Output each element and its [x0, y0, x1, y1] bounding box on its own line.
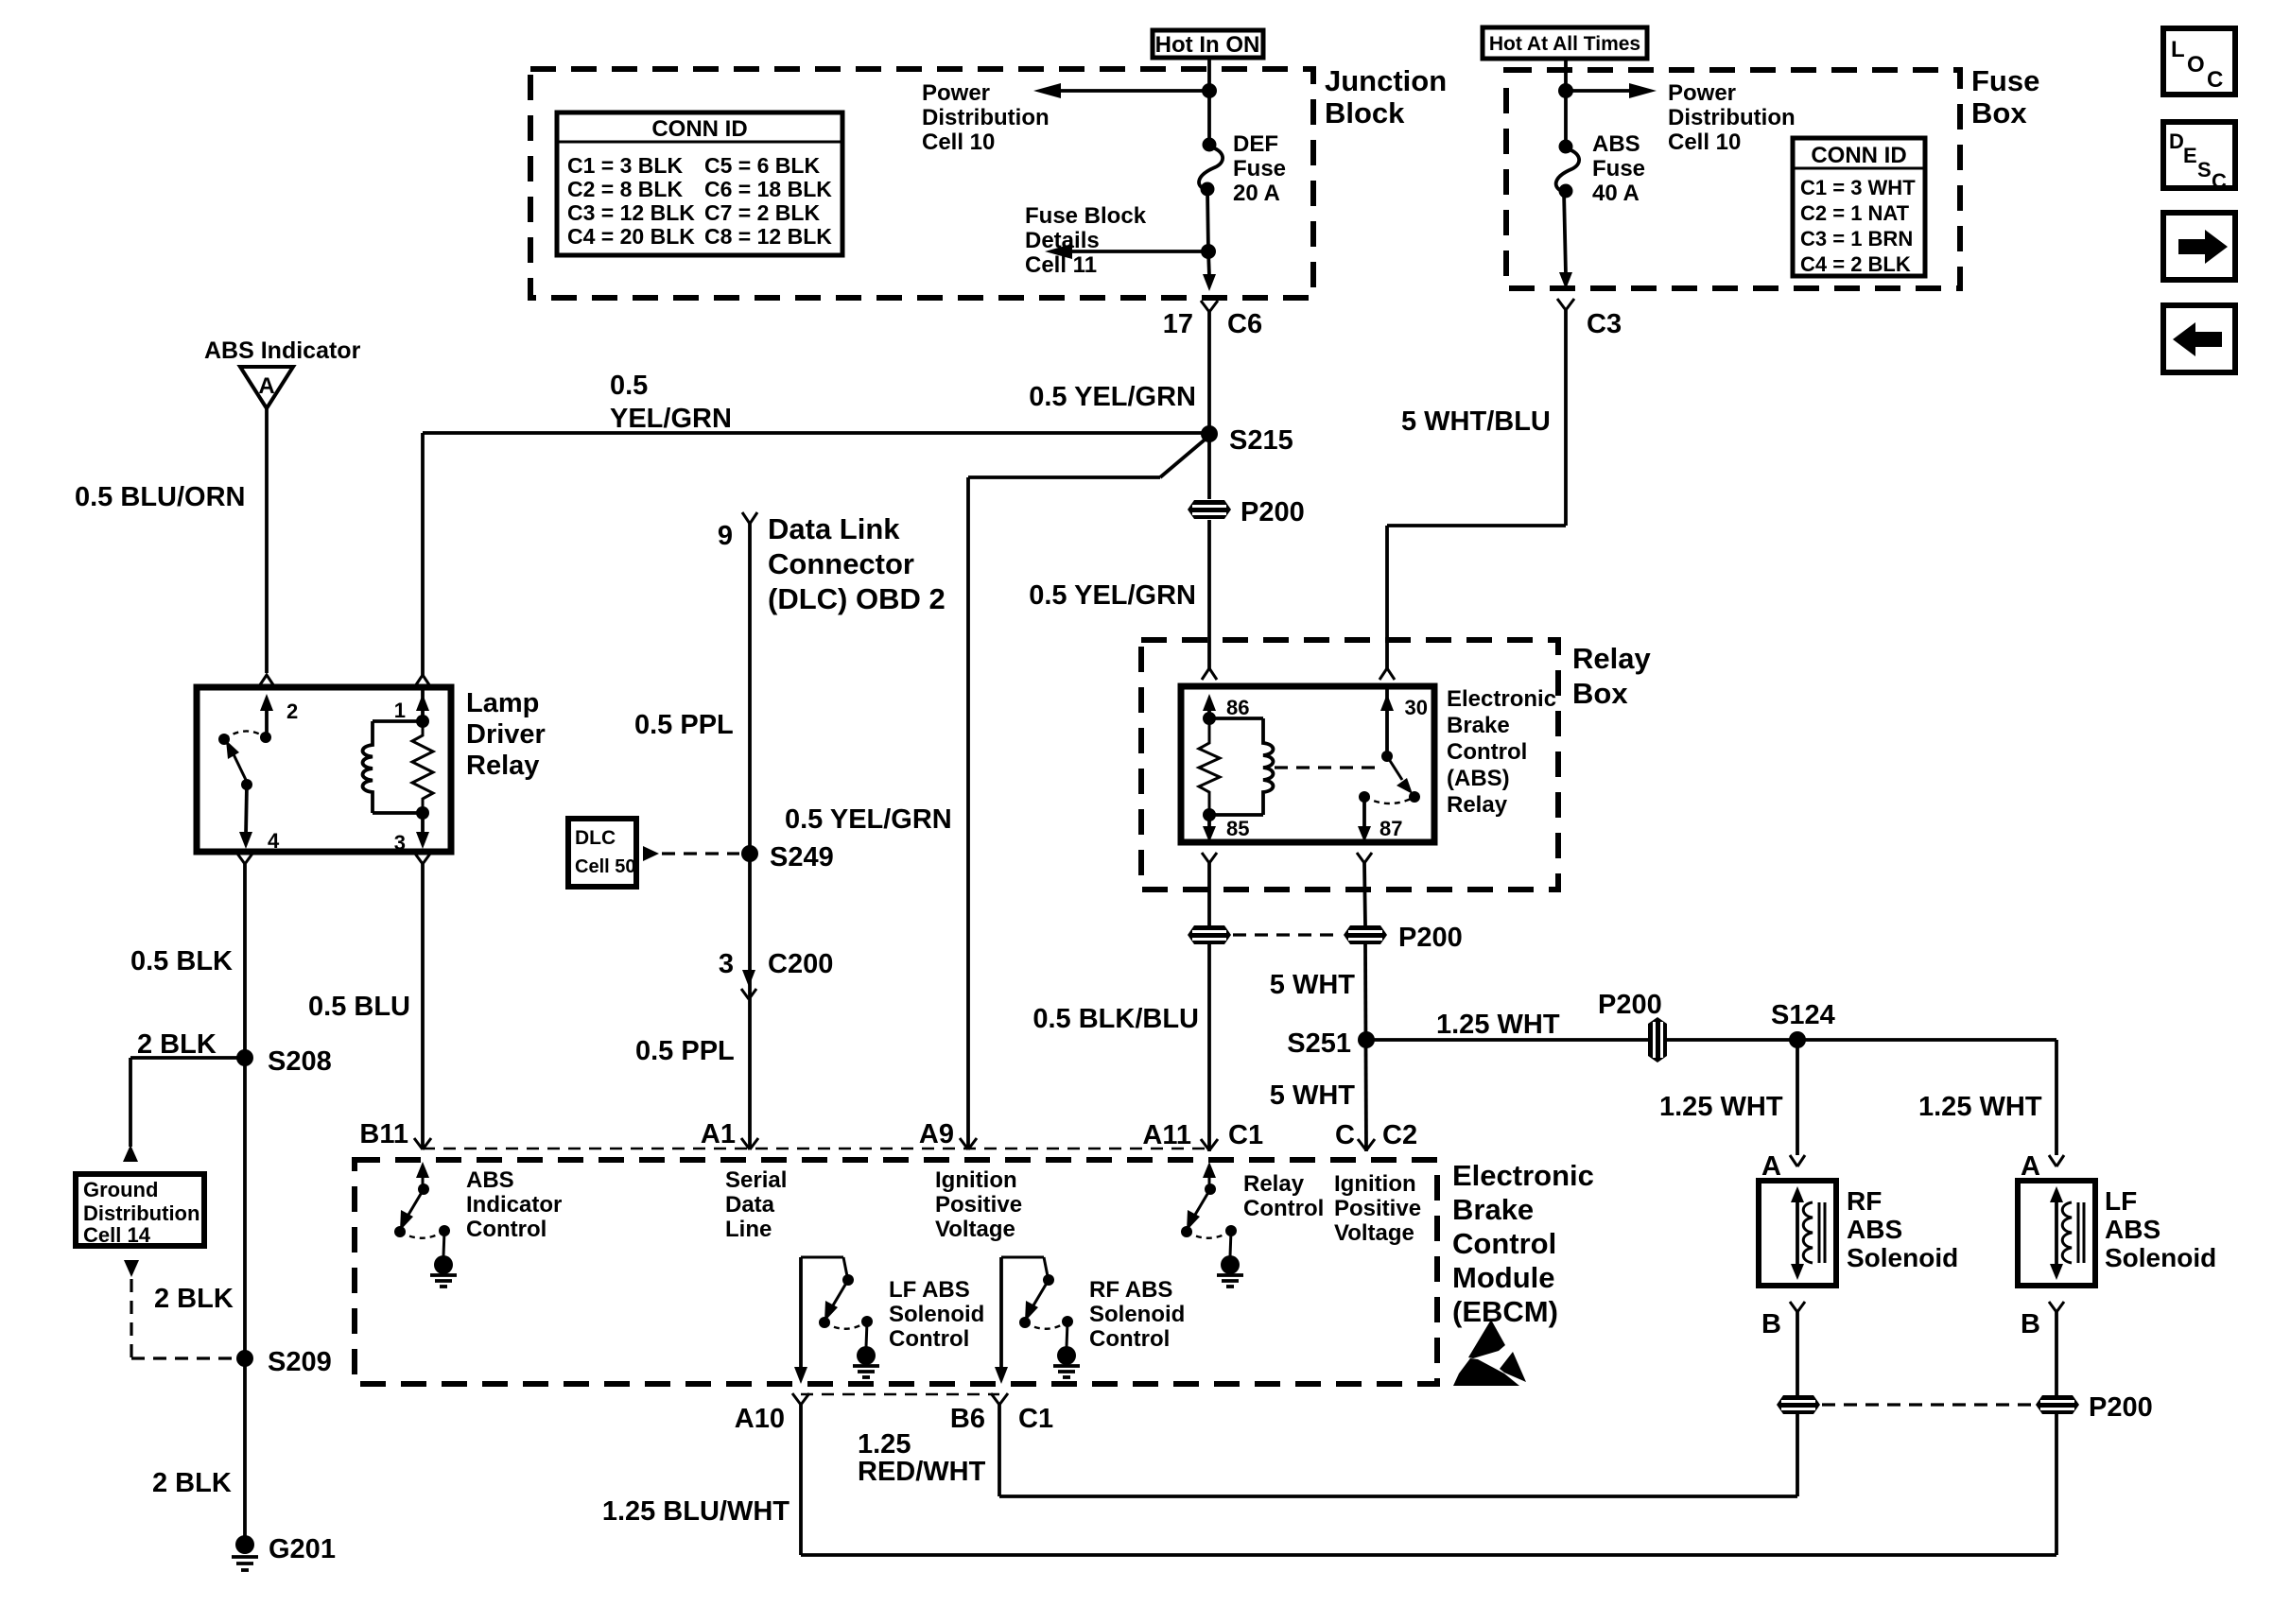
svg-text:B: B	[1761, 1309, 1781, 1339]
lamp relay coil	[363, 721, 424, 813]
connector chevron A1	[741, 1138, 758, 1149]
svg-text:Driver: Driver	[466, 719, 546, 750]
connector C6 chevron	[1201, 301, 1218, 432]
svg-text:C2 = 8 BLK: C2 = 8 BLK	[567, 177, 683, 201]
svg-text:Control: Control	[1243, 1196, 1324, 1221]
svg-text:5 WHT: 5 WHT	[1270, 1080, 1356, 1111]
label Fuse Block Details Cell 11	[1025, 203, 1147, 278]
wire S251 to S124	[1366, 1038, 1648, 1042]
svg-text:LF: LF	[2105, 1186, 2137, 1216]
svg-text:Control: Control	[1447, 739, 1527, 765]
svg-text:C6: C6	[1227, 309, 1262, 339]
dashed link coil to switch	[1275, 766, 1376, 769]
label ABS Indicator Control	[466, 1167, 562, 1242]
wire fuse block details arrow left	[1045, 244, 1216, 259]
node S208	[236, 1046, 332, 1077]
svg-text:Control: Control	[1089, 1326, 1170, 1352]
svg-text:5 WHT/BLU: 5 WHT/BLU	[1401, 406, 1551, 437]
svg-text:B: B	[2021, 1309, 2040, 1339]
svg-text:Block: Block	[1325, 96, 1405, 130]
label Relay Control	[1243, 1171, 1324, 1221]
svg-text:C200: C200	[768, 949, 833, 979]
svg-text:Connector: Connector	[768, 547, 914, 580]
pin 2 arrow inside	[260, 694, 273, 736]
svg-text:Cell 50: Cell 50	[575, 856, 635, 877]
pin 1 line with arrow	[416, 687, 429, 721]
DLC cell 50 box	[568, 819, 636, 887]
thin dashed connector line top	[423, 1148, 1209, 1150]
svg-text:Data Link: Data Link	[768, 512, 900, 545]
svg-text:B11: B11	[359, 1119, 408, 1149]
svg-text:Control: Control	[889, 1326, 969, 1352]
svg-text:C2 = 1 NAT: C2 = 1 NAT	[1800, 201, 1910, 225]
wire S208 to ground distribution	[123, 1058, 245, 1162]
label Electronic Brake Control (ABS) Relay	[1447, 686, 1556, 818]
connector chevron B6-C1	[991, 1393, 1008, 1496]
relay resistor	[1199, 712, 1220, 821]
wire power distribution arrow left	[1033, 83, 1217, 98]
svg-text:C5 = 6 BLK: C5 = 6 BLK	[704, 153, 820, 178]
ABS indicator triangle A	[240, 367, 293, 408]
relay box dashed	[1141, 640, 1558, 890]
svg-text:DLC: DLC	[575, 827, 616, 849]
junction block dashed box	[530, 69, 1313, 298]
label Ignition Positive Voltage (A9)	[935, 1167, 1022, 1242]
ESD symbol	[1453, 1320, 1526, 1386]
svg-text:C1: C1	[1228, 1120, 1263, 1150]
svg-text:A10: A10	[735, 1404, 785, 1434]
wire hot-at-all-times down	[1564, 59, 1568, 146]
svg-text:ABS Indicator: ABS Indicator	[204, 337, 361, 364]
svg-text:Distribution: Distribution	[922, 105, 1050, 130]
dashed link P200 pair	[1233, 933, 1342, 936]
relay coil	[1209, 718, 1274, 815]
svg-text:Cell 10: Cell 10	[922, 130, 995, 155]
label Fuse Box	[1971, 64, 2039, 130]
arrow and dashed link to S249	[643, 846, 739, 861]
connector P200 grommet (LF B)	[2036, 1392, 2153, 1423]
connector chevron A11-C1	[1201, 1139, 1218, 1150]
wire horizontal yelgrn to S215	[423, 433, 1209, 675]
svg-text:Cell 10: Cell 10	[1668, 130, 1741, 155]
svg-text:ABS: ABS	[2105, 1215, 2160, 1244]
RF solenoid internals	[1791, 1186, 1825, 1280]
lamp relay resistor	[412, 715, 433, 820]
node S215	[1201, 425, 1293, 456]
connector P200 vertical grommet	[1648, 1017, 1667, 1063]
node S251	[1287, 1028, 1375, 1059]
svg-text:S209: S209	[268, 1347, 332, 1377]
svg-text:2 BLK: 2 BLK	[154, 1284, 234, 1314]
wire fuse down exit arrow	[1559, 191, 1572, 289]
RF ABS solenoid control switch	[995, 1257, 1080, 1384]
wire fuse to block exit	[1207, 189, 1208, 251]
svg-text:87: 87	[1379, 817, 1402, 840]
label 1.25 RED/WHT	[858, 1429, 986, 1487]
svg-text:ABS: ABS	[466, 1167, 514, 1193]
label Electronic Brake Control Module (EBCM)	[1452, 1159, 1594, 1328]
connector chevron A9	[960, 1138, 977, 1149]
connector chevron below pin3	[415, 854, 430, 1149]
svg-text:ABS: ABS	[1592, 131, 1640, 157]
connector C200 arrow+chevron	[741, 970, 756, 999]
svg-text:1.25 BLU/WHT: 1.25 BLU/WHT	[602, 1496, 789, 1527]
svg-text:Relay: Relay	[466, 751, 539, 781]
connector chevron pin1 top	[415, 675, 430, 686]
LF solenoid internals	[2050, 1186, 2084, 1280]
svg-text:1.25: 1.25	[858, 1429, 911, 1460]
Hot At All Times box	[1483, 27, 1647, 59]
svg-text:Serial: Serial	[725, 1167, 787, 1193]
ground distribution box	[76, 1174, 204, 1247]
svg-text:C3 = 1 BRN: C3 = 1 BRN	[1800, 227, 1913, 251]
svg-text:G201: G201	[269, 1534, 336, 1564]
svg-text:Fuse: Fuse	[1592, 156, 1645, 181]
svg-text:Fuse Block: Fuse Block	[1025, 203, 1147, 229]
wire 85 down to A11	[1207, 944, 1211, 1151]
svg-text:(EBCM): (EBCM)	[1452, 1295, 1558, 1328]
label Relay Box	[1572, 642, 1651, 710]
right arrow box	[2163, 213, 2235, 280]
svg-text:9: 9	[718, 521, 733, 551]
wire P200 to relay box	[1207, 520, 1211, 669]
svg-text:C4 = 2 BLK: C4 = 2 BLK	[1800, 252, 1911, 276]
svg-text:Solenoid: Solenoid	[1089, 1302, 1185, 1327]
svg-text:Electronic: Electronic	[1452, 1159, 1594, 1192]
connector P200 grommet (85 side)	[1188, 925, 1231, 944]
RF solenoid box	[1759, 1181, 1836, 1286]
svg-text:RED/WHT: RED/WHT	[858, 1457, 986, 1487]
svg-text:RF: RF	[1847, 1186, 1882, 1216]
svg-text:DEF: DEF	[1233, 131, 1278, 157]
svg-text:Distribution: Distribution	[83, 1201, 200, 1225]
svg-text:CONN ID: CONN ID	[1811, 143, 1906, 168]
svg-text:3: 3	[719, 949, 734, 979]
svg-text:A1: A1	[701, 1119, 736, 1149]
svg-text:0.5 BLK: 0.5 BLK	[130, 946, 233, 976]
fuse ABS	[1556, 140, 1579, 199]
svg-text:0.5 PPL: 0.5 PPL	[634, 710, 734, 740]
LOC box	[2163, 28, 2235, 95]
svg-text:Positive: Positive	[1334, 1196, 1421, 1221]
svg-text:Cell 11: Cell 11	[1025, 252, 1097, 278]
thin dashed connector line bottom	[801, 1393, 999, 1396]
svg-text:O: O	[2187, 52, 2205, 78]
svg-text:Voltage: Voltage	[935, 1217, 1015, 1242]
label Power Distribution Cell 10 (fuse box)	[1668, 80, 1796, 155]
left arrow box	[2163, 305, 2235, 372]
label Junction Block	[1325, 64, 1447, 130]
LF solenoid box	[2018, 1181, 2095, 1286]
wire S215 down to P200	[1207, 434, 1211, 499]
node S209	[236, 1347, 332, 1377]
svg-text:1: 1	[394, 699, 406, 722]
label LF ABS Solenoid Control	[889, 1277, 984, 1352]
label Power Distribution Cell 10	[922, 80, 1050, 155]
svg-text:S: S	[2197, 158, 2212, 181]
CONN ID table (fuse box)	[1793, 138, 1925, 276]
svg-text:30: 30	[1405, 696, 1428, 719]
svg-text:C1: C1	[1018, 1404, 1053, 1434]
svg-text:Junction: Junction	[1325, 64, 1447, 97]
svg-text:C4 = 20 BLK: C4 = 20 BLK	[567, 224, 695, 249]
LF ABS solenoid control switch	[794, 1257, 879, 1384]
svg-text:P200: P200	[2089, 1392, 2153, 1423]
svg-text:1.25 WHT: 1.25 WHT	[1918, 1092, 2042, 1122]
svg-text:Line: Line	[725, 1217, 772, 1242]
svg-text:C3 = 12 BLK: C3 = 12 BLK	[567, 200, 695, 225]
wire S215 diagonal to A9 drop	[968, 436, 1209, 1149]
pin 3 wire arrow down	[416, 813, 429, 849]
CONN ID table (junction block)	[557, 112, 842, 255]
svg-text:CONN ID: CONN ID	[651, 116, 747, 142]
svg-text:Positive: Positive	[935, 1192, 1022, 1218]
wire ABS indicator down	[265, 408, 269, 673]
pin 30 line arrow	[1380, 687, 1394, 756]
svg-text:Relay: Relay	[1572, 642, 1651, 675]
label Data Link Connector (DLC) OBD 2	[768, 512, 946, 615]
svg-text:A: A	[1761, 1151, 1781, 1182]
lamp driver relay box	[197, 687, 451, 852]
fuse DEF	[1199, 138, 1223, 197]
chevron above pin 30	[1379, 668, 1395, 680]
svg-text:C: C	[2212, 169, 2227, 193]
svg-text:(ABS): (ABS)	[1447, 766, 1510, 791]
wire RF B return	[999, 1414, 1797, 1496]
svg-text:C: C	[1335, 1120, 1355, 1150]
svg-text:C1 = 3 WHT: C1 = 3 WHT	[1800, 176, 1916, 199]
svg-text:5 WHT: 5 WHT	[1270, 970, 1356, 1000]
svg-text:Control: Control	[466, 1217, 547, 1242]
svg-text:L: L	[2171, 37, 2185, 62]
svg-text:A9: A9	[919, 1119, 954, 1149]
chevron B LF	[2049, 1302, 2064, 1395]
relay control switch	[1181, 1162, 1243, 1287]
wire P200 to S124	[1667, 1038, 2056, 1042]
svg-text:0.5 BLU/ORN: 0.5 BLU/ORN	[75, 482, 245, 512]
wire ground distribution to S209 dashed	[124, 1260, 236, 1358]
svg-text:20 A: 20 A	[1233, 181, 1280, 206]
svg-text:17: 17	[1163, 309, 1193, 339]
svg-text:Relay: Relay	[1447, 792, 1508, 818]
svg-text:Distribution: Distribution	[1668, 105, 1796, 130]
connector P200 grommet (87 side)	[1344, 923, 1463, 953]
svg-text:Data: Data	[725, 1192, 775, 1218]
svg-text:3: 3	[394, 831, 406, 855]
wire corner down LF	[2055, 1040, 2058, 1155]
svg-text:Fuse: Fuse	[1233, 156, 1286, 181]
chevron below pin 85	[1202, 853, 1217, 925]
lamp relay switch	[218, 731, 271, 790]
svg-text:Lamp: Lamp	[466, 688, 539, 718]
svg-text:C7 = 2 BLK: C7 = 2 BLK	[704, 200, 820, 225]
ABS relay solid box	[1181, 686, 1434, 842]
svg-text:B6: B6	[950, 1404, 985, 1434]
svg-text:P200: P200	[1398, 923, 1463, 953]
svg-text:C1 = 3 BLK: C1 = 3 BLK	[567, 153, 683, 178]
svg-text:C3: C3	[1587, 309, 1622, 339]
dashed link solenoid P200 pair	[1822, 1403, 2034, 1406]
label Lamp Driver Relay	[466, 688, 546, 781]
svg-text:Solenoid: Solenoid	[1847, 1243, 1958, 1272]
svg-text:Indicator: Indicator	[466, 1192, 562, 1218]
svg-text:C: C	[2207, 67, 2223, 93]
DESC box	[2163, 122, 2235, 193]
svg-text:0.5 PPL: 0.5 PPL	[635, 1036, 735, 1066]
connector chevron B11	[414, 1138, 431, 1149]
wire hot-in-on down	[1207, 58, 1211, 144]
pin 86 arrow	[1203, 694, 1216, 718]
chevron above pin 86	[1202, 668, 1217, 680]
connector P200 grommet (main)	[1188, 497, 1305, 527]
label Ignition Positive Voltage (C2)	[1334, 1171, 1421, 1246]
svg-text:Relay: Relay	[1243, 1171, 1305, 1197]
svg-text:S208: S208	[268, 1046, 332, 1077]
node S249	[741, 842, 834, 872]
chevron B RF	[1790, 1302, 1805, 1395]
EBCM dashed box	[355, 1160, 1437, 1384]
svg-text:A11: A11	[1142, 1120, 1191, 1150]
svg-text:2 BLK: 2 BLK	[137, 1029, 217, 1060]
connector chevron below pin4	[237, 854, 252, 1536]
svg-text:S124: S124	[1771, 1000, 1835, 1030]
svg-text:40 A: 40 A	[1592, 181, 1640, 206]
svg-text:LF ABS: LF ABS	[889, 1277, 970, 1303]
svg-text:Details: Details	[1025, 228, 1100, 253]
svg-text:RF ABS: RF ABS	[1089, 1277, 1172, 1303]
ABS indicator control switch	[394, 1162, 457, 1287]
label Serial Data Line	[725, 1167, 787, 1242]
ground G201	[232, 1534, 336, 1570]
svg-text:Brake: Brake	[1452, 1193, 1534, 1226]
svg-text:Box: Box	[1572, 677, 1628, 710]
svg-text:C8 = 12 BLK: C8 = 12 BLK	[704, 224, 832, 249]
wire DLC vertical	[748, 524, 752, 1149]
wire 87 down to C2	[1365, 944, 1366, 1151]
node S124	[1771, 1000, 1835, 1048]
svg-text:Power: Power	[922, 80, 990, 106]
DLC chevron top	[742, 512, 757, 524]
svg-text:1.25 WHT: 1.25 WHT	[1659, 1092, 1783, 1122]
wire exit arrow down	[1203, 251, 1216, 291]
svg-text:E: E	[2183, 144, 2197, 167]
label LF ABS Solenoid	[2105, 1186, 2216, 1272]
wire S124 down RF	[1796, 1040, 1799, 1155]
label RF ABS Solenoid	[1847, 1186, 1958, 1272]
pin 85 arrow down	[1203, 815, 1216, 842]
svg-text:4: 4	[268, 829, 280, 853]
svg-text:ABS: ABS	[1847, 1215, 1902, 1244]
svg-text:P200: P200	[1241, 497, 1305, 527]
svg-text:Hot At All Times: Hot At All Times	[1489, 33, 1640, 55]
chevron A LF	[2049, 1155, 2064, 1166]
svg-text:S215: S215	[1229, 425, 1293, 456]
connector chevron pin2 top	[259, 675, 274, 686]
svg-text:Ignition: Ignition	[1334, 1171, 1416, 1197]
label RF ABS Solenoid Control	[1089, 1277, 1185, 1352]
svg-text:(DLC) OBD 2: (DLC) OBD 2	[768, 582, 946, 615]
fuse box dashed box	[1506, 70, 1960, 288]
svg-text:Solenoid: Solenoid	[2105, 1243, 2216, 1272]
relay switch	[1359, 751, 1420, 803]
label 0.5 / YEL GRN two lines	[610, 371, 732, 434]
svg-text:A: A	[258, 373, 274, 399]
wire C3 to relay box pin30	[1387, 526, 1566, 669]
Hot In ON box	[1153, 30, 1263, 58]
svg-text:Module: Module	[1452, 1261, 1555, 1294]
svg-text:Fuse: Fuse	[1971, 64, 2039, 97]
svg-text:C6 = 18 BLK: C6 = 18 BLK	[704, 177, 832, 201]
svg-text:0.5 BLK/BLU: 0.5 BLK/BLU	[1032, 1004, 1199, 1034]
svg-text:Electronic: Electronic	[1447, 686, 1556, 712]
svg-text:Ground: Ground	[83, 1178, 158, 1201]
svg-text:2: 2	[286, 700, 298, 723]
label DEF Fuse 20 A	[1233, 131, 1286, 206]
svg-text:0.5: 0.5	[610, 371, 648, 401]
svg-text:0.5 YEL/GRN: 0.5 YEL/GRN	[1029, 382, 1196, 412]
svg-text:Control: Control	[1452, 1227, 1556, 1260]
connector P200 grommet (RF B)	[1777, 1395, 1820, 1414]
svg-text:Solenoid: Solenoid	[889, 1302, 984, 1327]
svg-text:0.5 BLU: 0.5 BLU	[308, 992, 410, 1022]
svg-text:2 BLK: 2 BLK	[152, 1468, 232, 1498]
svg-text:0.5 YEL/GRN: 0.5 YEL/GRN	[1029, 580, 1196, 611]
connector chevron C-C2	[1358, 1139, 1375, 1150]
svg-text:S249: S249	[770, 842, 834, 872]
svg-text:Brake: Brake	[1447, 713, 1510, 738]
svg-text:YEL/GRN: YEL/GRN	[610, 404, 732, 434]
svg-text:86: 86	[1226, 696, 1249, 719]
svg-text:Power: Power	[1668, 80, 1736, 106]
connector C3 chevron	[1557, 299, 1574, 526]
connector chevron A10	[792, 1393, 809, 1555]
label ABS Fuse 40 A	[1592, 131, 1645, 206]
svg-text:Cell 14: Cell 14	[83, 1223, 151, 1247]
svg-text:Voltage: Voltage	[1334, 1220, 1414, 1246]
svg-text:S251: S251	[1287, 1028, 1351, 1059]
svg-text:Ignition: Ignition	[935, 1167, 1017, 1193]
pin 4 wire arrow down	[239, 785, 252, 849]
svg-text:C2: C2	[1382, 1120, 1417, 1150]
chevron below pin 87	[1357, 853, 1372, 925]
svg-text:A: A	[2021, 1151, 2040, 1182]
wire power distribution arrow right	[1558, 83, 1657, 98]
svg-text:Hot In ON: Hot In ON	[1155, 32, 1260, 58]
svg-text:D: D	[2169, 130, 2184, 153]
svg-text:85: 85	[1226, 817, 1249, 840]
svg-text:P200: P200	[1598, 990, 1662, 1020]
chevron A RF	[1790, 1155, 1805, 1166]
svg-text:1.25 WHT: 1.25 WHT	[1436, 1010, 1560, 1040]
svg-text:0.5 YEL/GRN: 0.5 YEL/GRN	[785, 804, 952, 835]
wire LF B return	[801, 1414, 2056, 1555]
svg-text:Box: Box	[1971, 96, 2027, 130]
pin 87 wire arrow down	[1358, 797, 1371, 842]
